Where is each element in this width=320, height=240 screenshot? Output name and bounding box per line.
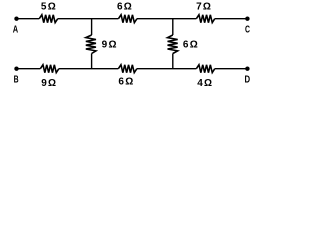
- node D terminal dot: [245, 67, 249, 71]
- wire R4 to R5: [59, 68, 119, 70]
- wire R8 to bottom rail: [172, 54, 174, 69]
- svg-text:6 Ω: 6 Ω: [183, 39, 198, 50]
- svg-text:6 Ω: 6 Ω: [118, 77, 133, 88]
- resistor 7 ohm top-right: [196, 15, 214, 23]
- svg-text:C: C: [245, 24, 250, 35]
- wire top rail to R7: [91, 19, 93, 35]
- svg-text:5 Ω: 5 Ω: [41, 1, 56, 12]
- node C terminal dot: [245, 17, 249, 21]
- resistor 6 ohm vertical-right: [168, 35, 178, 54]
- node A terminal dot: [14, 17, 18, 21]
- svg-text:7 Ω: 7 Ω: [196, 1, 211, 12]
- svg-text:9 Ω: 9 Ω: [41, 78, 56, 89]
- svg-text:6 Ω: 6 Ω: [117, 1, 132, 12]
- wire R6 to D: [215, 68, 248, 70]
- resistor 9 ohm bottom-left: [40, 65, 59, 73]
- svg-text:D: D: [245, 75, 251, 86]
- svg-text:9 Ω: 9 Ω: [102, 40, 117, 51]
- wire R2 to R3: [137, 18, 196, 20]
- wire R1 to R2: [58, 18, 119, 20]
- wire B to R4: [17, 68, 41, 70]
- resistor 6 ohm top-middle: [118, 15, 137, 23]
- wire A to R1: [17, 18, 40, 20]
- wire R5 to R6: [137, 68, 197, 70]
- wire R3 to C: [215, 18, 248, 20]
- resistor 6 ohm bottom-middle: [118, 65, 137, 73]
- svg-text:A: A: [13, 25, 18, 36]
- node B terminal dot: [14, 67, 18, 71]
- svg-text:4 Ω: 4 Ω: [197, 78, 212, 89]
- resistor 5 ohm top-left: [39, 15, 58, 23]
- resistor 9 ohm vertical-left: [86, 35, 96, 54]
- resistor 4 ohm bottom-right: [196, 65, 214, 73]
- wire top rail to R8: [172, 19, 174, 35]
- wire R7 to bottom rail: [91, 54, 93, 69]
- svg-text:B: B: [14, 75, 19, 86]
